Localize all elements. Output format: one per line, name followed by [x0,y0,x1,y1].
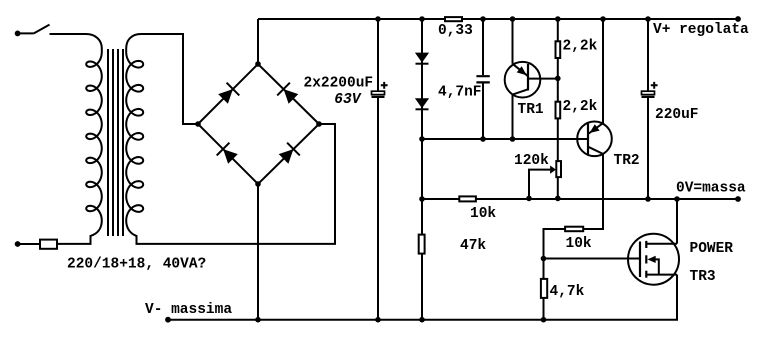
capacitor C2 4,7nF [476,76,489,82]
node: pot bottom / 0V line [555,196,561,202]
wire: TR1 base to divider [528,78,558,80]
label: 4,7nF [438,85,482,101]
wire: fuse to mains terminal (bottom) [18,243,40,245]
wire: TR3 source to V- rail [676,275,678,320]
svg-text:TR1: TR1 [518,102,544,118]
label: 4,7k [550,284,585,300]
resistor R3 2,2k (lower) [556,102,561,119]
diode D5 [415,53,429,64]
potentiometer R4 wiper arrow [529,166,556,199]
node: 47k column / 0V line [419,196,425,202]
wire: bottom V- rail [168,319,678,321]
transistor TR3 (power MOSFET) [628,234,679,285]
resistor R5 47k [419,235,425,254]
capacitor C3 220uF [642,82,658,97]
svg-text:220/18+18, 40VA?: 220/18+18, 40VA? [67,257,206,273]
node: mains input terminal (top) [15,31,21,37]
node: wiper / 0V line [526,196,532,202]
svg-text:TR2: TR2 [614,153,640,169]
wire: TR2 base line (y=139) [422,138,588,140]
resistor R1 0,33 [445,17,462,21]
switch S1 arm [34,25,50,34]
node: bridge left (AC) [195,121,201,127]
svg-text:10k: 10k [566,236,592,252]
wire: filter cap branch [377,19,379,320]
svg-text:0,33: 0,33 [438,23,473,39]
svg-text:10k: 10k [470,206,496,222]
svg-text:4,7nF: 4,7nF [438,85,482,101]
wire: divider chain column [557,19,559,198]
label: TR3 [690,269,716,285]
wire: switch feed from mains terminal [18,32,34,34]
svg-text:POWER: POWER [690,241,734,257]
node: top rail junctions [375,16,651,22]
node: mains input terminal (bottom) [15,241,21,247]
label: POWER [690,241,734,257]
diode D1 (bridge upper-left) [218,83,239,104]
resistor R7 10k (gate) [565,227,583,232]
transistor TR2 (PNP, mirrored) [577,122,612,157]
svg-text:2x2200uF: 2x2200uF [304,75,374,91]
wire: bridge diamond edges [198,64,319,184]
resistor R6 10k (feedback) [459,196,476,201]
svg-text:V- massima: V- massima [145,302,232,318]
diode D3 (bridge lower-left) [217,143,238,164]
capacitor C1 2x2200uF 63V [372,82,388,97]
diode D6 [415,98,429,109]
wire: TR3 drain to 0V rail [676,199,678,244]
fuse F1 [40,240,57,249]
label: TR2 [614,153,640,169]
node: 0V=massa terminal [735,196,741,202]
node: bridge bottom (-) [255,181,261,187]
wire: bridge bottom node down to V- rail [257,184,259,320]
node: V- rail junctions [255,317,546,323]
label: 0,33 [438,23,473,39]
svg-text:TR3: TR3 [690,269,716,285]
label: V+ regolata [653,22,749,38]
node: TR3 drain / 0V rail [674,196,680,202]
label: V- massima [145,302,232,318]
wire: 0V line [422,198,738,200]
node: V- massima terminal [165,317,171,323]
label: 0V=massa [676,181,746,197]
label: 220uF [655,107,699,123]
transformer T1 primary winding + wire to fuse [50,34,102,244]
transformer T1 secondary winding + wires to bridge [126,34,335,244]
node: bridge right (AC) [316,121,322,127]
svg-text:220uF: 220uF [655,107,699,123]
node: gate junction [541,256,547,262]
svg-text:V+ regolata: V+ regolata [653,22,749,38]
wire: 4,7nF branch [482,19,484,139]
node: y139 junctions [419,136,515,142]
svg-text:4,7k: 4,7k [550,284,585,300]
label: 2,2k upper [563,39,598,55]
svg-text:0V=massa: 0V=massa [676,181,746,197]
diode D2 (bridge upper-right) [277,83,298,104]
label: 2,2k lower [563,99,598,115]
diode D4 (bridge lower-right) [279,143,300,164]
label: 120k [514,153,549,169]
label: TR1 [518,102,544,118]
svg-text:2,2k: 2,2k [563,39,598,55]
label: 47k [460,238,486,254]
wire: top V+ rail [258,18,738,20]
svg-text:47k: 47k [460,238,486,254]
wire: TR3 gate wire [544,258,641,260]
label: 2x2200uF [304,75,374,91]
node: 220uF / 0V rail [645,196,651,202]
wire: column with D5 D6 and 47k [421,19,423,320]
resistor R8 4,7k [541,279,547,298]
wire: 220uF branch [647,19,649,199]
transistor TR1 (PNP) [505,62,541,98]
label: transformer value 220/18+18, 40VA? [67,257,206,273]
potentiometer R4 120k body [556,161,561,177]
wire: bridge top node to V+ rail [257,19,259,64]
label: 63V [334,92,361,108]
transformer T1 core [108,49,123,236]
wire: TR1 emitter/collector verticals [512,19,514,139]
node: bridge top (+) [255,61,261,67]
label: 10k feedback [470,206,496,222]
wire: TR2 collector to gate network [544,154,604,320]
svg-text:2,2k: 2,2k [563,99,598,115]
svg-text:120k: 120k [514,153,549,169]
resistor R2 2,2k (upper) [556,41,561,58]
node: V+ regolata terminal [735,16,741,22]
node: TR1 base / divider junction [555,76,561,82]
wire: TR2 emitter vertical [602,19,604,124]
label: 10k gate [566,236,592,252]
svg-text:63V: 63V [334,92,361,108]
